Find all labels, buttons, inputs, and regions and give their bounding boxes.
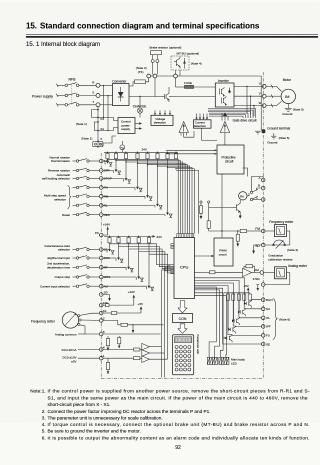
op-amp U3 gate drive xyxy=(220,122,230,133)
terminal 2 xyxy=(99,319,103,323)
svg-text:It is possible to output the a: It is possible to output the abnormality… xyxy=(48,435,310,440)
wire opamp outputs to bundle xyxy=(149,346,161,348)
brake resistor terminals xyxy=(151,60,154,63)
voltage detection block xyxy=(151,115,173,125)
wire protective to relay xyxy=(243,168,248,177)
terminal SE xyxy=(261,342,265,346)
wire bus2 line 4 xyxy=(139,252,174,271)
terminal R xyxy=(96,83,100,87)
fuse F1 xyxy=(185,85,194,88)
terminal AM xyxy=(260,271,264,275)
hollow arrow CON-PU xyxy=(178,324,187,334)
current detection block xyxy=(194,120,212,128)
resistor pull-up x=176 xyxy=(174,153,177,158)
wire opamp to protective xyxy=(184,131,194,137)
terminal C xyxy=(261,198,265,202)
wire N feed down from MT-BU node xyxy=(175,78,177,87)
svg-text:IPF: IPF xyxy=(266,325,271,329)
wire S drop to S1 xyxy=(107,96,109,131)
terminal B xyxy=(261,186,265,190)
svg-text:Current input selection: Current input selection xyxy=(40,284,70,288)
optocoupler STOP xyxy=(103,178,124,180)
pickup circle 1 xyxy=(200,201,202,203)
resistor pull-up x=126 xyxy=(124,153,127,158)
wire T phase xyxy=(57,104,65,106)
wire 24V rail 2 xyxy=(104,235,153,237)
wire SE rail xyxy=(223,291,262,344)
wires MT-BU to bus xyxy=(175,70,177,74)
wire FM to meter xyxy=(265,230,275,232)
wire bus2 line 2 xyxy=(119,246,175,266)
svg-text:Connect the power factor impro: Connect the power factor improving DC re… xyxy=(48,409,211,414)
switch contact AU xyxy=(73,285,77,287)
ground arrow below transistor xyxy=(239,214,241,216)
wire S to terminal xyxy=(79,95,96,97)
svg-text:SD: SD xyxy=(255,244,260,248)
parameter unit body xyxy=(173,335,194,375)
svg-text:SE: SE xyxy=(266,342,270,346)
op-amp U5 xyxy=(142,343,150,350)
terminal STF xyxy=(99,159,103,163)
resistor R12 xyxy=(207,221,210,229)
wire bus2 line 3 xyxy=(129,249,174,269)
svg-text:CON: CON xyxy=(179,317,187,321)
wire AM to meter xyxy=(264,272,275,274)
svg-text:detection: detection xyxy=(154,121,167,125)
down arrow mark xyxy=(257,285,259,289)
inverter block xyxy=(215,83,234,107)
wire bus line 8 xyxy=(175,168,176,169)
resistor out pull-up x=244.2 xyxy=(243,294,246,300)
resistor out pull-up x=238.9 xyxy=(237,294,240,300)
svg-text:6.: 6. xyxy=(42,435,46,440)
optocoupler RM xyxy=(103,195,145,197)
wire gate drive to protective xyxy=(224,133,226,146)
transistor Q charge bypass xyxy=(164,94,166,99)
resistor R16 xyxy=(105,304,109,307)
resistor R20 small xyxy=(118,337,121,343)
protective circuit block xyxy=(217,145,244,174)
resistor pull-up x=137.5 xyxy=(136,153,139,158)
terminal S xyxy=(96,94,100,98)
svg-text:24V: 24V xyxy=(142,148,147,152)
svg-text:Brake resistor (optional): Brake resistor (optional) xyxy=(150,46,182,50)
optocoupler JOG xyxy=(103,257,116,259)
gate wire bundle xyxy=(208,108,256,110)
wire bus line 2 xyxy=(115,160,116,161)
optocoupler STF xyxy=(103,160,105,162)
svg-text:Frequency meter: Frequency meter xyxy=(269,220,294,224)
svg-text:Frequency setter: Frequency setter xyxy=(31,319,56,323)
svg-text:2.: 2. xyxy=(42,409,46,414)
wire LED drive 2 xyxy=(195,293,224,358)
terminal JOG xyxy=(99,256,103,260)
junction dots rail1 xyxy=(107,152,108,153)
optocoupler RES xyxy=(103,214,165,216)
optocoupler RT xyxy=(103,266,126,268)
resistor R13 FM xyxy=(240,229,247,232)
wire LED drive 4 xyxy=(195,287,217,357)
resistor R14 shunt xyxy=(236,234,239,241)
resistor pull-up x=157.5 xyxy=(156,153,159,158)
wire pot bottom to 5 xyxy=(80,325,100,334)
terminal RL xyxy=(99,204,103,208)
terminal 5 return xyxy=(261,283,265,287)
svg-text:FU: FU xyxy=(266,334,270,338)
terminal W xyxy=(262,104,266,108)
svg-text:470Ω: 470Ω xyxy=(253,277,260,281)
junction dots xyxy=(97,109,99,111)
wire meter return xyxy=(265,273,290,285)
resistor R18 xyxy=(121,323,127,326)
resistor pull-up x=147.5 xyxy=(146,153,149,158)
opto output OL xyxy=(232,319,234,322)
arrows into voltage detection xyxy=(154,110,156,113)
svg-text:If torque control is necessary: If torque control is necessary, connect … xyxy=(48,422,310,427)
frequency meter box xyxy=(275,225,287,237)
switch NFB pole R xyxy=(65,84,68,87)
wire pot wiper to 2 xyxy=(81,319,99,321)
IGBT Q1 inside inverter xyxy=(219,89,221,95)
opto output SU xyxy=(238,311,240,314)
svg-text:RUN: RUN xyxy=(266,298,273,302)
resistor pull-up x=116 xyxy=(114,153,117,158)
wire LED drive 3 xyxy=(195,290,220,357)
svg-text:short-circuit piece from X - X: short-circuit piece from X - X1. xyxy=(48,402,111,407)
wire W to motor xyxy=(266,101,282,105)
control power supply block xyxy=(118,118,135,134)
switch contact STR xyxy=(73,170,77,172)
svg-text:Discrimination: Discrimination xyxy=(51,159,70,163)
terminal OL xyxy=(261,316,265,320)
optocoupler RL xyxy=(103,204,155,206)
svg-text:+5V: +5V xyxy=(138,302,143,306)
svg-text:deceleration time: deceleration time xyxy=(47,266,70,270)
wire bus line 9 xyxy=(176,170,199,233)
ground symbol chassis xyxy=(255,130,261,132)
svg-text:1.: 1. xyxy=(42,389,46,394)
svg-text:selection: selection xyxy=(58,248,70,252)
cable slash marks xyxy=(271,85,273,89)
terminal RUN xyxy=(261,298,265,302)
terminal IPF xyxy=(261,325,265,329)
svg-text:NFB: NFB xyxy=(69,78,77,82)
wire inverter output V xyxy=(234,95,262,97)
resistor pull-up2 x=149.0 xyxy=(147,238,150,243)
terminal SD xyxy=(99,293,103,297)
resistor R17 xyxy=(111,312,116,315)
svg-text:FM: FM xyxy=(255,227,260,231)
svg-text:S1, and input the same power a: S1, and input the same power as the main… xyxy=(48,395,308,400)
arrows control supply outputs xyxy=(135,123,140,125)
optocoupler AU xyxy=(103,285,147,287)
charging resistor R0 xyxy=(135,80,146,84)
svg-text:+24V: +24V xyxy=(103,222,110,226)
resistor out pull-up x=227.9 xyxy=(226,294,229,300)
terminal U xyxy=(262,85,266,89)
switch contact JOG xyxy=(73,257,77,259)
terminal FU xyxy=(261,334,265,338)
svg-text:(Note 5): (Note 5) xyxy=(279,136,290,140)
wire bus drop right xyxy=(260,76,262,131)
svg-text:Analog meter: Analog meter xyxy=(288,264,308,268)
motor ground wire xyxy=(287,104,289,109)
wire bus line 6 xyxy=(157,165,158,166)
resistor R22 xyxy=(134,357,140,360)
svg-text:T: T xyxy=(92,100,94,104)
svg-text:(Note 6): (Note 6) xyxy=(279,318,290,322)
svg-text:SU: SU xyxy=(266,307,270,311)
op-amp U4 AM xyxy=(243,268,252,276)
wire inverter output W xyxy=(234,105,262,107)
resistor R21 xyxy=(134,348,140,351)
wire CT tap W xyxy=(253,106,255,117)
svg-text:4.: 4. xyxy=(42,422,46,427)
wire 24V rail 1 xyxy=(104,151,178,153)
terminal T xyxy=(96,103,100,107)
short-circuit piece X-X1 box xyxy=(93,142,103,147)
wire vertical tap below T xyxy=(97,107,99,147)
wire base feed xyxy=(209,207,233,209)
wire CT tap U xyxy=(246,86,248,113)
svg-text:Inverter: Inverter xyxy=(218,79,230,83)
wires brake resistor loop xyxy=(152,55,154,60)
svg-text:MT-BU (optional): MT-BU (optional) xyxy=(177,52,200,56)
wire LED drive 1 xyxy=(195,296,227,358)
svg-text:10: 10 xyxy=(103,309,107,313)
svg-text:Gate drive circuit: Gate drive circuit xyxy=(233,118,257,122)
svg-text:5.: 5. xyxy=(42,429,46,434)
terminal P xyxy=(153,74,157,78)
terminal SD out xyxy=(261,243,265,247)
wire 5V rail out xyxy=(224,292,250,294)
transistor Q3 relay driver xyxy=(236,204,238,210)
wire SD down arrow xyxy=(254,245,262,251)
analog meter box xyxy=(275,267,287,279)
svg-text:S: S xyxy=(92,91,94,95)
svg-text:Motor: Motor xyxy=(283,78,292,82)
wire current det to protective xyxy=(202,128,217,140)
wire bus2 line 5 xyxy=(149,254,174,273)
svg-text:±5V: ±5V xyxy=(71,360,76,364)
wire 2 line xyxy=(103,321,121,325)
calibration resistor arc xyxy=(274,240,285,245)
switch NFB pole S xyxy=(65,94,68,97)
wire relay to contacts xyxy=(247,193,249,196)
resistor pull-up x=167.5 xyxy=(166,153,169,158)
terminal 10 xyxy=(99,311,103,315)
switch contact RH xyxy=(73,187,77,189)
optocoupler CS xyxy=(103,249,107,251)
transistor inside MT-BU xyxy=(176,60,178,66)
wire S phase xyxy=(57,95,65,97)
resistor out pull-up x=233.2 xyxy=(232,294,235,300)
svg-text:X: X xyxy=(100,137,102,141)
terminal AU xyxy=(99,284,103,288)
svg-text:The parameter unit is unnecess: The parameter unit is unnecessary for sc… xyxy=(48,416,163,421)
wire U to motor xyxy=(266,86,282,91)
wire inverter output U xyxy=(234,85,262,87)
resistor pull-up2 x=128.6 xyxy=(127,238,130,243)
wire V to motor xyxy=(266,95,281,97)
svg-text:V: V xyxy=(259,92,261,96)
thermistor circle xyxy=(120,145,125,150)
MT-BU dashed box (Note 4) xyxy=(171,56,189,70)
svg-text:(Note 1): (Note 1) xyxy=(76,122,87,126)
svg-text:Power supply: Power supply xyxy=(32,94,53,98)
terminal V xyxy=(262,94,266,98)
wire protective to PWM xyxy=(221,174,223,238)
resistor pull-up2 x=118.5 xyxy=(117,238,120,243)
wires brake terminals to bus xyxy=(152,63,154,75)
svg-text:LED: LED xyxy=(231,361,238,365)
switch contact CS xyxy=(73,249,77,251)
ground symbol motor xyxy=(285,107,292,109)
pickup circle 2 xyxy=(208,201,210,203)
switch contact RL xyxy=(73,204,77,206)
switch contact MRS xyxy=(73,276,77,278)
svg-text:RA: RA xyxy=(240,194,244,198)
terminal PC xyxy=(99,233,103,237)
NFB mechanical link xyxy=(71,84,73,105)
terminal RT xyxy=(99,266,103,270)
CON block xyxy=(173,314,193,323)
terminal MRS xyxy=(99,275,103,279)
svg-text:Jog/thermal input: Jog/thermal input xyxy=(47,256,70,260)
switch contact STOP xyxy=(73,178,77,180)
parameter unit display xyxy=(174,337,191,343)
PWM circuit block xyxy=(214,238,233,266)
wires gate drive drops xyxy=(221,113,223,120)
connector hatch CPU left xyxy=(171,268,174,274)
svg-text:Be sure to ground the inverter: Be sure to ground the inverter and the m… xyxy=(48,429,141,434)
terminal A xyxy=(261,178,265,182)
wire bus line 3 xyxy=(125,161,126,162)
terminal 10E xyxy=(99,303,103,307)
svg-text:IM: IM xyxy=(285,94,289,99)
switch contact STF xyxy=(73,160,77,162)
svg-text:(Note 1): (Note 1) xyxy=(82,137,93,141)
terminal RH xyxy=(99,186,103,190)
motor M xyxy=(281,89,295,103)
svg-text:self-holding selection: self-holding selection xyxy=(42,177,70,181)
terminal 4 xyxy=(99,348,103,352)
terminal STOP xyxy=(99,177,103,181)
arrows into current detection xyxy=(196,114,198,119)
svg-text:supply: supply xyxy=(121,127,130,131)
svg-text:+10V: +10V xyxy=(128,290,135,294)
converter U1 xyxy=(113,84,130,106)
svg-text:Reset: Reset xyxy=(62,213,70,217)
wire contact A xyxy=(252,177,264,192)
opto output RUN xyxy=(244,302,246,305)
terminal RM xyxy=(99,195,103,199)
switch contact RM xyxy=(73,195,77,197)
terminal 1 xyxy=(99,356,103,360)
svg-text:B: B xyxy=(258,184,260,188)
switch contact RES xyxy=(73,214,77,216)
svg-text:CPU: CPU xyxy=(180,265,189,270)
hollow arrow CPU-CON xyxy=(178,301,187,313)
heading double rule xyxy=(26,34,318,36)
svg-text:calibration resistor: calibration resistor xyxy=(268,258,292,262)
svg-text:3.: 3. xyxy=(42,416,46,421)
wire bus line 7 xyxy=(167,167,168,168)
relay RA xyxy=(239,192,247,200)
svg-text:(Note 4): (Note 4) xyxy=(191,62,202,66)
enclosure chain line right xyxy=(262,72,264,379)
wire bus2 line 1 xyxy=(110,244,175,265)
enclosure chain line left xyxy=(100,153,102,379)
resistor R11 xyxy=(199,206,202,214)
resistor R15 feedback xyxy=(246,265,253,268)
brace note6 xyxy=(273,299,278,340)
wire S1 to control supply xyxy=(98,128,118,131)
svg-text:Output stop: Output stop xyxy=(54,275,70,279)
wire X to right xyxy=(103,136,116,143)
wire bus line 5 xyxy=(147,164,148,165)
wire N bus from converter xyxy=(129,96,162,98)
wire T to terminal xyxy=(79,104,96,106)
resistor out pull-up x=249.8 xyxy=(248,294,251,300)
svg-text:OL: OL xyxy=(266,316,270,320)
resistor R19 divider xyxy=(106,339,109,346)
svg-text:15. 1 Internal block diagram: 15. 1 Internal block diagram xyxy=(26,42,100,48)
terminal P1 xyxy=(147,74,151,78)
svg-text:92: 92 xyxy=(175,445,181,451)
svg-text:circuit: circuit xyxy=(219,252,227,256)
wire DC bus P xyxy=(151,75,154,77)
junction dots rail2 xyxy=(109,236,110,237)
IGBT Q2 inside inverter xyxy=(221,98,223,104)
svg-text:AM: AM xyxy=(254,268,259,272)
svg-text:W: W xyxy=(259,101,262,105)
wire to AM terminal xyxy=(252,272,260,274)
short-circuit piece R-R1 xyxy=(92,110,99,118)
svg-text:15.: 15. xyxy=(26,21,37,30)
wire T terminal to converter xyxy=(100,104,113,106)
svg-text:detection: detection xyxy=(194,124,207,128)
svg-text:DC4-20mA: DC4-20mA xyxy=(62,348,77,352)
wire R1 to control supply xyxy=(98,117,118,120)
contact arm b xyxy=(250,198,252,200)
op-amp U6 xyxy=(142,350,150,357)
contact arm a xyxy=(250,191,252,193)
terminal CS xyxy=(99,248,103,252)
wire PWM to AM opamp xyxy=(195,271,210,273)
main body LED blocks xyxy=(207,357,217,364)
wire R phase xyxy=(57,84,65,86)
svg-text:Ground: Ground xyxy=(267,141,277,145)
enclosure chain line bottom xyxy=(101,378,263,380)
diode inside converter xyxy=(120,87,122,102)
svg-text:(Note 5): (Note 5) xyxy=(293,107,304,111)
svg-text:Converter: Converter xyxy=(112,79,127,83)
resistor R23 divider xyxy=(106,362,109,369)
svg-text:Ground: Ground xyxy=(282,112,292,116)
terminal MT-BU P xyxy=(174,74,178,78)
optocoupler RH xyxy=(103,187,135,189)
switch contact RT xyxy=(73,266,77,268)
resistor pull-up2 x=109.5 xyxy=(108,238,111,243)
svg-text:U: U xyxy=(259,82,261,86)
svg-text:24V: 24V xyxy=(157,235,162,239)
resistor pull-up2 x=138.7 xyxy=(137,238,140,243)
switch NFB pole T xyxy=(65,104,68,107)
lamp L1 charge xyxy=(139,97,141,109)
wire R terminal to converter xyxy=(100,85,113,87)
arrow ground 2 xyxy=(132,325,134,330)
